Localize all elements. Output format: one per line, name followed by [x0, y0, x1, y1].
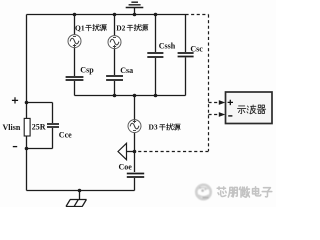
svg-text:Coe: Coe — [119, 162, 133, 171]
svg-text:Vlisn: Vlisn — [3, 123, 21, 132]
svg-text:25R: 25R — [32, 123, 46, 132]
svg-text:D3: D3 — [149, 123, 158, 132]
svg-text:Csa: Csa — [120, 66, 133, 75]
svg-text:D2: D2 — [116, 23, 125, 32]
svg-text:Q1: Q1 — [75, 23, 85, 32]
svg-text:Csc: Csc — [190, 44, 203, 53]
svg-text:Cce: Cce — [59, 130, 72, 139]
svg-text:Cssh: Cssh — [159, 41, 176, 50]
svg-text:Csp: Csp — [80, 66, 94, 75]
